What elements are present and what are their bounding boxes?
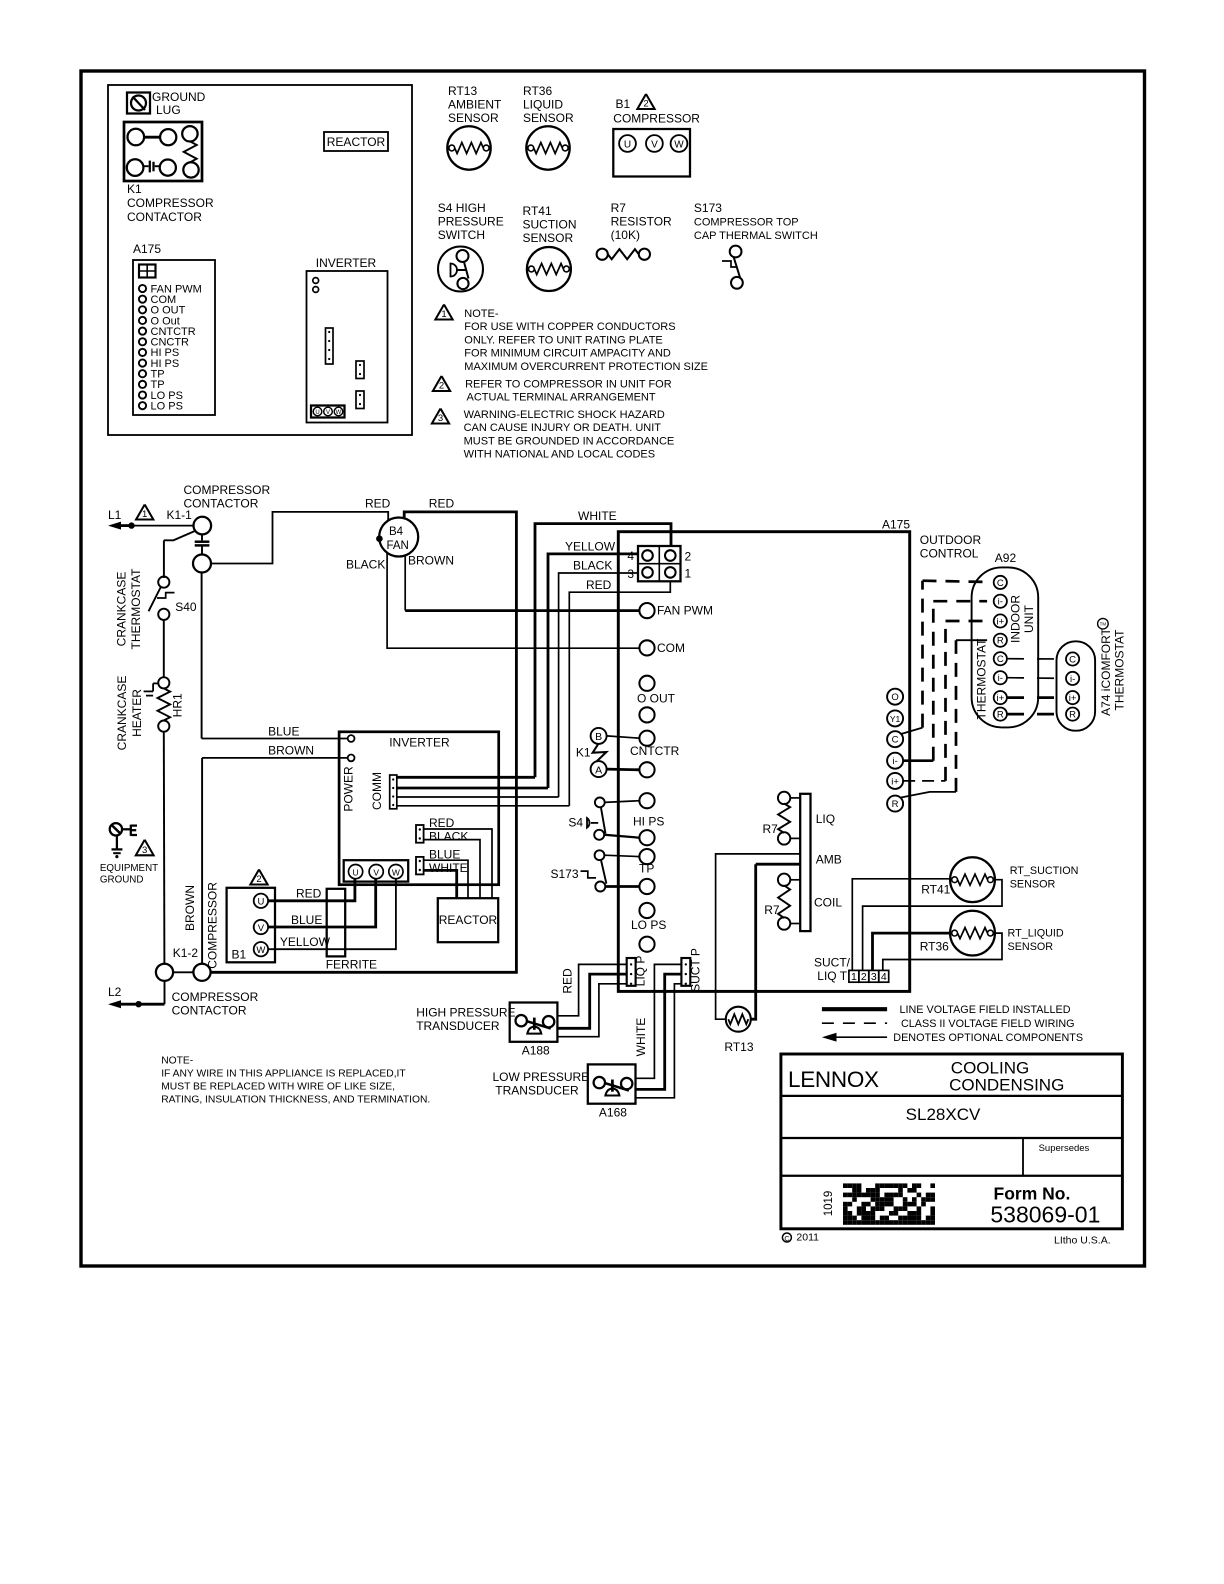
svg-text:A188: A188 bbox=[522, 1044, 550, 1058]
svg-text:3: 3 bbox=[627, 567, 634, 581]
svg-text:REACTOR: REACTOR bbox=[327, 135, 386, 149]
svg-text:INVERTER: INVERTER bbox=[389, 736, 450, 750]
svg-text:RATING, INSULATION THICKNESS,: RATING, INSULATION THICKNESS, AND TERMIN… bbox=[161, 1095, 430, 1106]
svg-text:CAN CAUSE INJURY OR DEATH. UNI: CAN CAUSE INJURY OR DEATH. UNIT bbox=[464, 422, 662, 434]
svg-text:YELLOW: YELLOW bbox=[280, 935, 331, 949]
svg-text:i+: i+ bbox=[891, 776, 899, 787]
svg-text:CRANKCASE: CRANKCASE bbox=[115, 676, 129, 751]
svg-text:COIL: COIL bbox=[814, 896, 842, 910]
svg-text:CONTACTOR: CONTACTOR bbox=[184, 497, 259, 511]
svg-text:W: W bbox=[256, 945, 265, 956]
svg-text:WHITE: WHITE bbox=[634, 1018, 648, 1057]
svg-text:2: 2 bbox=[643, 99, 648, 110]
svg-text:R7: R7 bbox=[611, 201, 627, 215]
svg-text:B4: B4 bbox=[389, 526, 404, 538]
svg-text:3: 3 bbox=[871, 971, 877, 983]
svg-text:FOR MINIMUM CIRCUIT AMPACITY A: FOR MINIMUM CIRCUIT AMPACITY AND bbox=[464, 348, 671, 360]
svg-text:LIQ: LIQ bbox=[816, 812, 835, 826]
svg-text:COMPRESSOR: COMPRESSOR bbox=[613, 112, 700, 126]
svg-text:K1: K1 bbox=[576, 745, 591, 759]
svg-text:AMBIENT: AMBIENT bbox=[448, 98, 502, 112]
svg-text:COMPRESSOR: COMPRESSOR bbox=[127, 196, 214, 210]
svg-text:1: 1 bbox=[142, 509, 147, 520]
svg-text:2011: 2011 bbox=[796, 1232, 819, 1244]
svg-text:WHITE: WHITE bbox=[429, 861, 468, 875]
svg-text:V: V bbox=[258, 923, 265, 934]
svg-text:UNIT: UNIT bbox=[1022, 604, 1036, 633]
svg-text:C: C bbox=[1069, 655, 1076, 666]
svg-text:W: W bbox=[392, 867, 400, 877]
svg-text:(10K): (10K) bbox=[611, 228, 640, 242]
svg-text:LO PS: LO PS bbox=[151, 400, 183, 412]
svg-text:K1-1: K1-1 bbox=[167, 508, 193, 522]
svg-text:U: U bbox=[257, 897, 264, 908]
svg-text:B: B bbox=[595, 731, 602, 743]
svg-text:BROWN: BROWN bbox=[268, 744, 314, 758]
svg-text:TM: TM bbox=[1100, 622, 1107, 627]
svg-text:A168: A168 bbox=[599, 1106, 627, 1120]
svg-text:MAXIMUM OVERCURRENT PROTECTION: MAXIMUM OVERCURRENT PROTECTION SIZE bbox=[464, 361, 708, 373]
svg-text:A: A bbox=[595, 764, 602, 776]
svg-text:U: U bbox=[624, 139, 631, 150]
svg-text:SENSOR: SENSOR bbox=[1010, 879, 1056, 891]
svg-text:R7: R7 bbox=[764, 903, 780, 917]
svg-text:BLACK: BLACK bbox=[429, 830, 468, 844]
svg-text:A92: A92 bbox=[995, 551, 1017, 565]
svg-text:CLASS II VOLTAGE FIELD WIRING: CLASS II VOLTAGE FIELD WIRING bbox=[901, 1018, 1075, 1030]
svg-text:R: R bbox=[997, 636, 1004, 647]
svg-text:i-: i- bbox=[998, 597, 1003, 608]
svg-text:RT41: RT41 bbox=[523, 204, 552, 218]
svg-text:LUG: LUG bbox=[156, 103, 181, 117]
svg-text:B1: B1 bbox=[616, 97, 631, 111]
svg-text:U: U bbox=[353, 867, 359, 877]
svg-text:BLACK: BLACK bbox=[346, 558, 385, 572]
svg-text:LENNOX: LENNOX bbox=[788, 1067, 879, 1092]
svg-text:SL28XCV: SL28XCV bbox=[906, 1105, 981, 1124]
svg-text:COMPRESSOR: COMPRESSOR bbox=[172, 990, 259, 1004]
svg-text:LO PS: LO PS bbox=[631, 918, 666, 932]
svg-text:TRANSDUCER: TRANSDUCER bbox=[495, 1084, 579, 1098]
svg-text:U: U bbox=[315, 410, 319, 416]
svg-text:A175: A175 bbox=[133, 242, 161, 256]
svg-text:BROWN: BROWN bbox=[408, 554, 454, 568]
svg-text:L1: L1 bbox=[108, 508, 122, 522]
svg-text:FAN PWM: FAN PWM bbox=[657, 604, 713, 618]
svg-text:S4: S4 bbox=[568, 815, 583, 829]
svg-text:LItho U.S.A.: LItho U.S.A. bbox=[1054, 1235, 1111, 1247]
svg-text:RT13: RT13 bbox=[448, 84, 477, 98]
svg-text:Supersedes: Supersedes bbox=[1039, 1143, 1090, 1154]
svg-text:COMM: COMM bbox=[370, 772, 384, 810]
svg-text:C: C bbox=[892, 735, 899, 746]
svg-text:R: R bbox=[892, 799, 899, 810]
svg-text:SENSOR: SENSOR bbox=[523, 231, 574, 245]
svg-text:i-: i- bbox=[1070, 674, 1075, 685]
svg-text:C: C bbox=[784, 1236, 789, 1243]
svg-text:4: 4 bbox=[627, 549, 634, 563]
svg-text:THERMOSTAT: THERMOSTAT bbox=[129, 568, 143, 650]
svg-text:HIGH PRESSURE: HIGH PRESSURE bbox=[416, 1006, 515, 1020]
svg-text:SENSOR: SENSOR bbox=[1008, 941, 1054, 953]
svg-text:K1-2: K1-2 bbox=[173, 946, 199, 960]
svg-text:RT13: RT13 bbox=[724, 1040, 753, 1054]
svg-text:B1: B1 bbox=[232, 948, 247, 962]
svg-text:HI PS: HI PS bbox=[633, 815, 664, 829]
svg-text:R7: R7 bbox=[763, 822, 779, 836]
svg-text:SENSOR: SENSOR bbox=[523, 111, 574, 125]
svg-text:4: 4 bbox=[881, 971, 887, 983]
svg-text:MUST BE REPLACED WITH WIRE OF: MUST BE REPLACED WITH WIRE OF LIKE SIZE, bbox=[161, 1082, 395, 1093]
svg-text:S40: S40 bbox=[175, 600, 197, 614]
svg-text:V: V bbox=[373, 867, 379, 877]
svg-text:CONTACTOR: CONTACTOR bbox=[172, 1004, 247, 1018]
svg-text:SUCTION: SUCTION bbox=[523, 218, 577, 232]
svg-text:RT36: RT36 bbox=[523, 84, 552, 98]
svg-text:1: 1 bbox=[851, 971, 857, 983]
svg-text:L2: L2 bbox=[108, 985, 122, 999]
svg-text:O: O bbox=[891, 692, 898, 703]
svg-text:TRANSDUCER: TRANSDUCER bbox=[416, 1019, 500, 1033]
svg-text:EQUIPMENT: EQUIPMENT bbox=[100, 863, 158, 874]
svg-text:3: 3 bbox=[438, 413, 443, 424]
svg-text:LINE VOLTAGE FIELD INSTALLED: LINE VOLTAGE FIELD INSTALLED bbox=[900, 1004, 1071, 1016]
svg-text:538069-01: 538069-01 bbox=[990, 1202, 1100, 1228]
svg-text:WHITE: WHITE bbox=[578, 509, 617, 523]
svg-text:GROUND: GROUND bbox=[100, 874, 144, 885]
svg-text:YELLOW: YELLOW bbox=[565, 539, 616, 553]
svg-text:C: C bbox=[997, 578, 1004, 589]
svg-text:COMPRESSOR TOP: COMPRESSOR TOP bbox=[694, 217, 799, 229]
svg-text:Form No.: Form No. bbox=[994, 1184, 1071, 1204]
svg-text:CONTROL: CONTROL bbox=[920, 547, 979, 561]
svg-text:i+: i+ bbox=[1069, 693, 1077, 704]
svg-text:RT_LIQUID: RT_LIQUID bbox=[1008, 928, 1064, 940]
svg-text:2: 2 bbox=[861, 971, 867, 983]
svg-text:SUCT/: SUCT/ bbox=[814, 956, 851, 970]
svg-text:BLUE: BLUE bbox=[291, 913, 322, 927]
svg-text:WARNING-ELECTRIC SHOCK HAZARD: WARNING-ELECTRIC SHOCK HAZARD bbox=[464, 409, 665, 421]
svg-text:IF ANY WIRE IN THIS APPLIANCE: IF ANY WIRE IN THIS APPLIANCE IS REPLACE… bbox=[161, 1069, 406, 1080]
svg-text:3: 3 bbox=[142, 845, 147, 856]
svg-text:BLUE: BLUE bbox=[268, 724, 299, 738]
svg-text:FERRITE: FERRITE bbox=[326, 958, 377, 972]
svg-text:LOW PRESSURE: LOW PRESSURE bbox=[493, 1070, 590, 1084]
svg-text:A175: A175 bbox=[882, 518, 910, 532]
svg-text:FAN: FAN bbox=[387, 540, 409, 552]
svg-text:i+: i+ bbox=[996, 617, 1004, 628]
svg-text:RED: RED bbox=[561, 968, 575, 994]
svg-text:1: 1 bbox=[441, 309, 446, 320]
svg-text:COMPRESSOR: COMPRESSOR bbox=[206, 882, 220, 969]
svg-text:O OUT: O OUT bbox=[637, 692, 676, 706]
svg-text:RESISTOR: RESISTOR bbox=[611, 215, 672, 229]
svg-text:W: W bbox=[336, 410, 342, 416]
svg-text:RED: RED bbox=[586, 578, 612, 592]
svg-text:SENSOR: SENSOR bbox=[448, 111, 499, 125]
svg-text:CONDENSING: CONDENSING bbox=[949, 1076, 1064, 1095]
svg-text:TP: TP bbox=[639, 862, 654, 876]
svg-text:2: 2 bbox=[256, 874, 261, 885]
svg-text:POWER: POWER bbox=[342, 766, 356, 812]
svg-text:AMB: AMB bbox=[816, 853, 842, 867]
svg-text:LIQUID: LIQUID bbox=[523, 98, 563, 112]
svg-text:S173: S173 bbox=[694, 201, 722, 215]
svg-text:BROWN: BROWN bbox=[183, 885, 197, 931]
svg-text:V: V bbox=[651, 139, 658, 150]
svg-text:1019: 1019 bbox=[823, 1191, 835, 1217]
svg-text:RED: RED bbox=[296, 887, 322, 901]
svg-text:NOTE-: NOTE- bbox=[464, 308, 499, 320]
svg-text:REACTOR: REACTOR bbox=[439, 913, 498, 927]
svg-text:LIQ P: LIQ P bbox=[634, 956, 648, 987]
svg-text:S4 HIGH: S4 HIGH bbox=[438, 201, 486, 215]
svg-text:V: V bbox=[326, 410, 330, 416]
svg-text:GROUND: GROUND bbox=[152, 90, 206, 104]
svg-text:THERMOSTAT: THERMOSTAT bbox=[1113, 629, 1127, 711]
svg-text:HEATER: HEATER bbox=[130, 689, 144, 737]
svg-text:COM: COM bbox=[657, 641, 685, 655]
svg-text:CRANKCASE: CRANKCASE bbox=[115, 572, 129, 647]
svg-text:2: 2 bbox=[439, 381, 444, 392]
svg-text:i+: i+ bbox=[996, 693, 1004, 704]
svg-text:OUTDOOR: OUTDOOR bbox=[920, 533, 982, 547]
svg-text:RT_SUCTION: RT_SUCTION bbox=[1010, 865, 1079, 877]
svg-text:HR1: HR1 bbox=[171, 693, 185, 717]
svg-text:S173: S173 bbox=[550, 867, 578, 881]
svg-text:WITH NATIONAL AND LOCAL CODES: WITH NATIONAL AND LOCAL CODES bbox=[464, 449, 656, 461]
svg-text:R: R bbox=[997, 710, 1004, 721]
svg-text:LIQ T: LIQ T bbox=[817, 969, 847, 983]
svg-text:CNTCTR: CNTCTR bbox=[630, 744, 680, 758]
svg-text:ACTUAL TERMINAL ARRANGEMENT: ACTUAL TERMINAL ARRANGEMENT bbox=[467, 392, 656, 404]
svg-text:CAP THERMAL SWITCH: CAP THERMAL SWITCH bbox=[694, 230, 818, 242]
svg-text:C: C bbox=[997, 654, 1004, 665]
svg-text:DENOTES OPTIONAL COMPONENTS: DENOTES OPTIONAL COMPONENTS bbox=[893, 1032, 1083, 1044]
svg-text:BLACK: BLACK bbox=[573, 559, 612, 573]
svg-text:RED: RED bbox=[429, 816, 455, 830]
svg-text:CONTACTOR: CONTACTOR bbox=[127, 210, 202, 224]
svg-text:SWITCH: SWITCH bbox=[438, 228, 485, 242]
svg-text:R: R bbox=[1069, 710, 1076, 721]
svg-text:ONLY. REFER TO UNIT RATING PLA: ONLY. REFER TO UNIT RATING PLATE bbox=[464, 334, 662, 346]
svg-text:THERMOSTAT: THERMOSTAT bbox=[975, 638, 989, 720]
svg-text:1: 1 bbox=[685, 567, 692, 581]
svg-text:i-: i- bbox=[892, 756, 897, 767]
svg-text:W: W bbox=[674, 139, 684, 150]
svg-text:RT41: RT41 bbox=[921, 883, 950, 897]
svg-text:RT36: RT36 bbox=[920, 940, 949, 954]
svg-text:i-: i- bbox=[998, 673, 1003, 684]
svg-text:SUCT P: SUCT P bbox=[689, 948, 703, 992]
svg-text:NOTE-: NOTE- bbox=[161, 1056, 193, 1067]
svg-text:COMPRESSOR: COMPRESSOR bbox=[184, 483, 271, 497]
svg-text:2: 2 bbox=[685, 550, 692, 564]
svg-text:INDOOR: INDOOR bbox=[1009, 595, 1023, 643]
svg-text:PRESSURE: PRESSURE bbox=[438, 215, 504, 229]
svg-text:FOR USE WITH COPPER CONDUCTORS: FOR USE WITH COPPER CONDUCTORS bbox=[464, 321, 675, 333]
svg-text:REFER TO COMPRESSOR IN UNIT FO: REFER TO COMPRESSOR IN UNIT FOR bbox=[465, 378, 672, 390]
svg-text:K1: K1 bbox=[127, 182, 142, 196]
svg-text:RED: RED bbox=[429, 497, 455, 511]
svg-text:Y1: Y1 bbox=[890, 714, 901, 724]
svg-text:RED: RED bbox=[365, 497, 391, 511]
svg-text:INVERTER: INVERTER bbox=[316, 256, 377, 270]
svg-text:A74 iCOMFORT: A74 iCOMFORT bbox=[1099, 627, 1113, 715]
svg-text:MUST BE GROUNDED IN ACCORDANCE: MUST BE GROUNDED IN ACCORDANCE bbox=[464, 435, 675, 447]
